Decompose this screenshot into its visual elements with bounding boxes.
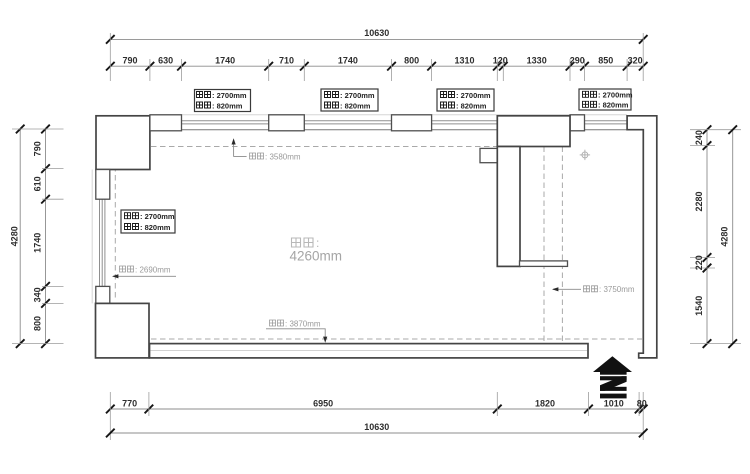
right segment dim ticks bbox=[703, 125, 712, 134]
bottom overall dimension line 10630 bbox=[110, 432, 643, 434]
top overall dim ticks bbox=[106, 35, 115, 44]
top segment dimension line bbox=[110, 65, 643, 67]
svg-text:: 2700mm: : 2700mm bbox=[212, 91, 247, 100]
beam label 3750 text bbox=[584, 285, 635, 294]
svg-text:340: 340 bbox=[33, 287, 43, 302]
svg-text:: 2690mm: : 2690mm bbox=[135, 265, 171, 274]
window label box 2 bbox=[321, 89, 378, 111]
north arrow body bottom bar bbox=[600, 394, 627, 399]
window label box 4 bbox=[579, 89, 633, 110]
svg-text:: 820mm: : 820mm bbox=[456, 101, 487, 110]
svg-text:1540: 1540 bbox=[694, 296, 704, 316]
top segment dim ticks bbox=[106, 62, 115, 71]
right segment dim texts bbox=[694, 130, 704, 316]
left wall window glass line 2 bbox=[101, 170, 103, 304]
svg-text:: 3580mm: : 3580mm bbox=[265, 152, 301, 161]
room height label bbox=[290, 236, 343, 264]
svg-text:: 3870mm: : 3870mm bbox=[285, 319, 321, 328]
window label box 3 bbox=[437, 89, 494, 111]
top wall window glass line 1 bbox=[150, 120, 627, 122]
beam label 2690 leader arrow bbox=[112, 274, 176, 278]
north arrow head bbox=[593, 356, 632, 372]
left wall window inner line bbox=[104, 170, 106, 304]
top window mullion block 4 bbox=[570, 115, 585, 131]
dashed beam line (vertical, left room) bbox=[114, 130, 116, 301]
dashed beam edge 2 (vertical, right room) bbox=[561, 147, 563, 344]
top wall inner face line bbox=[150, 129, 627, 131]
svg-text:: 2700mm: : 2700mm bbox=[140, 212, 175, 221]
svg-text:1310: 1310 bbox=[454, 56, 474, 66]
svg-text:4260mm: 4260mm bbox=[290, 249, 343, 264]
top center pier block bbox=[497, 116, 570, 147]
svg-text:630: 630 bbox=[158, 56, 173, 66]
svg-text:610: 610 bbox=[33, 176, 43, 191]
left wall window glass line 1 bbox=[99, 170, 101, 304]
svg-text:1010: 1010 bbox=[604, 399, 624, 409]
bottom wall inner line bbox=[151, 350, 588, 352]
beam label 3870 text bbox=[270, 319, 321, 328]
svg-text:: 3750mm: : 3750mm bbox=[599, 285, 635, 294]
window label box left wall bbox=[121, 210, 175, 233]
dashed beam line (horizontal, upper room) bbox=[115, 146, 497, 148]
north arrow letter N (rotated) bbox=[600, 376, 627, 391]
beam label 3870 leader arrow bbox=[266, 329, 327, 343]
svg-text:120: 120 bbox=[493, 56, 508, 66]
svg-text:1740: 1740 bbox=[338, 56, 358, 66]
bottom extension lines bbox=[110, 392, 643, 440]
left overall dimension line 4280 bbox=[19, 129, 21, 344]
svg-text:: 820mm: : 820mm bbox=[598, 101, 629, 110]
right overall dimension line 4280 bbox=[732, 130, 734, 344]
dashed beam line (horizontal, lower room) bbox=[115, 338, 642, 340]
top wall window sill line bbox=[150, 114, 627, 116]
left window jamb block lower bbox=[96, 286, 110, 303]
bottom segment dim ticks bbox=[106, 405, 115, 414]
svg-text:: 820mm: : 820mm bbox=[140, 223, 171, 232]
left extension lines bbox=[12, 129, 64, 344]
svg-text:290: 290 bbox=[570, 56, 585, 66]
top window mullion block 3 bbox=[392, 115, 432, 131]
bottom-left corner column bbox=[96, 303, 150, 358]
svg-text:: 2700mm: : 2700mm bbox=[598, 91, 633, 100]
bottom wall bar bbox=[150, 344, 589, 358]
left segment dim ticks bbox=[41, 125, 50, 134]
partition wall bbox=[497, 147, 520, 267]
svg-text:800: 800 bbox=[33, 316, 43, 331]
north arrow body top bar bbox=[600, 372, 627, 375]
small wall stub left of partition bbox=[480, 148, 497, 162]
top overall dimension line 10630 bbox=[110, 38, 643, 40]
left window jamb block upper bbox=[96, 170, 110, 200]
right overall dim ticks bbox=[728, 125, 737, 134]
svg-text:1740: 1740 bbox=[33, 233, 43, 253]
beam label 3580 text bbox=[250, 152, 301, 161]
top extension lines bbox=[110, 33, 643, 81]
svg-text:790: 790 bbox=[33, 141, 43, 156]
svg-text:850: 850 bbox=[598, 56, 613, 66]
dashed beam edge 1 (vertical, right room) bbox=[543, 147, 545, 344]
top-left corner column bbox=[96, 116, 150, 170]
svg-text:220: 220 bbox=[694, 255, 704, 270]
svg-text:710: 710 bbox=[279, 56, 294, 66]
svg-text:1740: 1740 bbox=[215, 56, 235, 66]
bottom overall dim ticks bbox=[106, 429, 115, 438]
svg-text:1820: 1820 bbox=[535, 399, 555, 409]
beam label 3750 leader arrow bbox=[552, 287, 581, 291]
bottom segment dim texts bbox=[122, 399, 647, 409]
svg-text:10630: 10630 bbox=[364, 28, 389, 38]
svg-text:4280: 4280 bbox=[720, 227, 730, 247]
ceiling lamp symbol bbox=[580, 150, 590, 160]
left wall window sill line bbox=[91, 170, 93, 304]
window label box 1 bbox=[195, 90, 251, 112]
partition foot bar bbox=[520, 261, 568, 267]
left overall dim ticks bbox=[16, 125, 25, 134]
svg-text:770: 770 bbox=[122, 399, 137, 409]
svg-text:80: 80 bbox=[637, 399, 647, 409]
svg-text:790: 790 bbox=[122, 56, 137, 66]
beam label 3580 leader arrow bbox=[232, 138, 247, 156]
svg-text:800: 800 bbox=[404, 56, 419, 66]
beam label 2690 text bbox=[120, 265, 171, 274]
svg-text:: 2700mm: : 2700mm bbox=[456, 91, 491, 100]
svg-text:: 820mm: : 820mm bbox=[212, 101, 243, 110]
right extension lines bbox=[690, 130, 741, 344]
svg-text:320: 320 bbox=[628, 56, 643, 66]
right wall (L corner + strip + foot) bbox=[627, 116, 657, 358]
top segment dim texts bbox=[122, 56, 642, 66]
svg-text:4280: 4280 bbox=[9, 226, 19, 246]
svg-text:: 2700mm: : 2700mm bbox=[340, 91, 375, 100]
left segment dimension line bbox=[45, 129, 47, 344]
top window mullion block 1 bbox=[150, 115, 182, 131]
left segment dim texts bbox=[33, 141, 43, 331]
svg-text:2280: 2280 bbox=[694, 191, 704, 211]
right segment dimension line bbox=[706, 130, 708, 344]
svg-text:: 820mm: : 820mm bbox=[340, 101, 371, 110]
top wall window glass line 2 bbox=[150, 123, 627, 125]
svg-text:6950: 6950 bbox=[313, 399, 333, 409]
top window mullion block 2 bbox=[269, 115, 305, 131]
bottom segment dimension line bbox=[110, 408, 643, 410]
svg-text:240: 240 bbox=[694, 130, 704, 145]
svg-text:10630: 10630 bbox=[364, 422, 389, 432]
svg-text:1330: 1330 bbox=[527, 56, 547, 66]
